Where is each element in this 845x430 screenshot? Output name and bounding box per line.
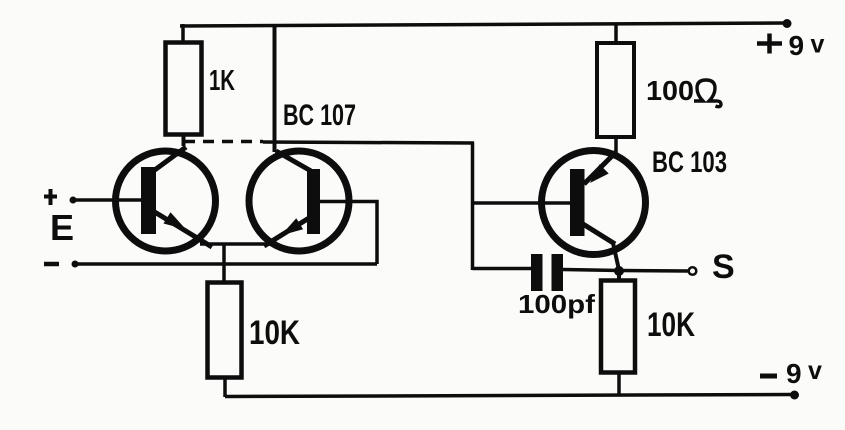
svg-text:100pf: 100pf — [518, 289, 595, 319]
+9V rail terminal dot — [783, 19, 792, 28]
wire: dashed segment from R1 bottom toward node — [184, 140, 263, 144]
transistor Q1 (BC107) — [116, 147, 216, 251]
resistor R4 10K — [601, 281, 635, 373]
-9V rail — [225, 395, 793, 397]
svg-text:S: S — [712, 248, 735, 286]
svg-text:v: v — [811, 31, 825, 59]
wire: base node down to capacitor line — [473, 267, 532, 271]
wire: E- line — [75, 262, 377, 266]
svg-text:BC 107: BC 107 — [283, 99, 356, 132]
label +9v — [757, 30, 825, 61]
svg-text:1K: 1K — [209, 65, 235, 97]
capacitor C1 100pf (left plate) — [531, 254, 543, 291]
label + (input plus) — [44, 189, 57, 205]
input E+ terminal dot — [70, 197, 77, 204]
wire: Q3 collector to output node — [613, 243, 619, 270]
wire: R4 bottom to -9V rail — [617, 371, 621, 396]
transistor Q3 (BC103) — [542, 151, 646, 255]
+9V rail — [180, 23, 786, 26]
label - (input minus) — [44, 262, 59, 267]
resistor R1 1K — [166, 43, 202, 135]
wire: output node to R4 top — [617, 271, 621, 282]
output terminal S (open circle) — [689, 267, 697, 275]
svg-text:9: 9 — [786, 358, 802, 389]
wire: rail to R1 top — [181, 24, 185, 44]
svg-text:E: E — [50, 207, 74, 248]
wire: emitters to R2 top — [222, 244, 226, 284]
wire: Q3 base column (vertical) — [471, 142, 475, 270]
resistor R2 10K — [208, 283, 242, 378]
label -9v — [760, 357, 822, 389]
wire: R1 bottom lead — [182, 134, 186, 146]
resistor R3 100ohm — [597, 43, 634, 137]
svg-text:BC 103: BC 103 — [652, 146, 727, 179]
input E- terminal dot — [72, 261, 79, 268]
output node junction dot — [614, 266, 624, 276]
wire: capacitor to output node — [563, 270, 620, 271]
svg-text:v: v — [808, 357, 822, 385]
svg-text:100: 100 — [646, 75, 694, 106]
capacitor C1 100pf (right plate) — [552, 254, 564, 291]
wire: emitter junction line — [200, 242, 271, 246]
wire: Q2 collector to rail — [273, 24, 277, 152]
svg-text:9: 9 — [789, 30, 805, 61]
wire: node to Q3 base column (horizontal) — [263, 142, 474, 143]
wire: output node to S terminal — [620, 269, 688, 273]
-9V rail terminal dot — [790, 391, 799, 400]
wire: Q2 base riser — [320, 202, 377, 265]
transistor Q2 (BC107) — [249, 151, 349, 251]
wire: rail to R3 top — [614, 23, 618, 44]
wire: Q3 base lead — [472, 201, 570, 205]
svg-text:10K: 10K — [249, 314, 300, 352]
label 100ohm — [646, 75, 721, 107]
wire: R2 bottom to -9V rail — [223, 376, 227, 397]
svg-text:10K: 10K — [647, 306, 695, 344]
wire: E+ input to Q1 base — [73, 198, 142, 202]
wire: R3 bottom to Q3 emitter — [614, 136, 618, 154]
